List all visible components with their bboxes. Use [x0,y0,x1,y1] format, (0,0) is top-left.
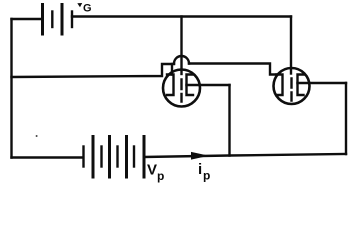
wire: cathode bus from left rail with jog up [12,64,175,77]
wire: right rail down to bottom wire [345,83,347,154]
battery Vp (4 cells) [84,147,135,167]
wire: anode lead of T1 going right [187,84,230,86]
wire: cathode bus continues to tube T2, jog down [189,64,277,75]
label VG [77,3,91,15]
wire: anode lead of T2 going right [298,82,347,84]
label Vp [147,162,164,184]
svg-text:G: G [83,3,92,15]
anode of T1 (right bracket) [187,75,194,96]
wire: top rail from battery VG to top-right corner [72,15,291,17]
triode T1 envelope [163,70,200,107]
wire: T1 anode rail down to bottom wire [228,85,230,156]
triode T2 envelope [274,68,310,104]
svg-text:i: i [198,161,202,178]
grid of T1 (dashed) [180,80,182,102]
stray speck from scan [36,135,38,137]
label ip [198,161,210,183]
wire: grid lead of tube T1 down from top rail [180,17,182,75]
svg-text:p: p [157,169,164,183]
wire: top-right corner down to tube T2 (grid lead) [290,17,292,74]
arrowhead: plate current ip direction [192,153,207,160]
grid of T2 (dashed) [290,79,292,101]
wire: bottom-left from left rail to battery Vp [12,156,83,158]
cathode of T2 (left bracket) [277,75,283,96]
battery VG (2 cells) [43,5,63,35]
anode of T2 (right bracket) [298,75,304,96]
wire: left rail (vertical) [10,19,12,158]
wire: top-left from left rail to battery VG [12,18,43,20]
svg-text:p: p [203,169,210,183]
wire: connector from cathode bus down to T1 cathode [171,64,173,75]
svg-text:V: V [147,162,157,179]
wire: crossover hop over T1 grid lead [174,56,189,63]
wire: bottom rail from battery Vp to right corner [144,154,346,157]
cathode of T1 (left bracket) [167,75,174,96]
